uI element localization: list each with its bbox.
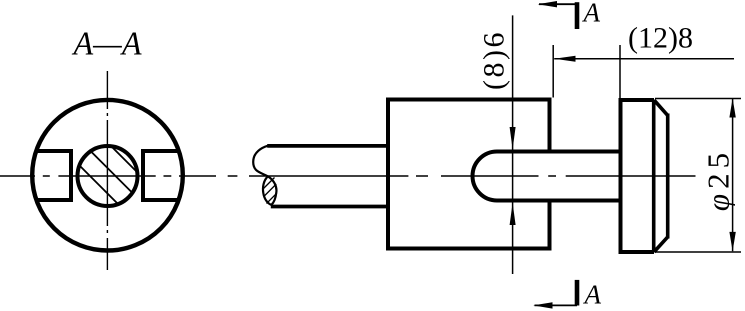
dimension (8)6: upper arrowhead (down) [510, 127, 516, 149]
dimension phi25: extension line top [655, 98, 741, 100]
cutting plane mark bottom: thick stroke [575, 280, 580, 306]
vertical centerline (section view) [106, 71, 108, 270]
shaft section circle [78, 146, 138, 206]
break lens left arc [263, 176, 271, 205]
dimension (8)6: dimension line [512, 15, 514, 274]
flange chamfer line [652, 100, 656, 252]
block right edge lower segment [548, 201, 552, 251]
svg-text:A: A [583, 280, 602, 310]
flange top edge [619, 98, 655, 102]
cutting plane mark top: thick stroke [575, 2, 580, 29]
dimension (8)6: lower arrowhead (up) [510, 203, 516, 225]
break lens hatch [264, 178, 277, 204]
svg-text:(8)6: (8)6 [478, 30, 511, 90]
slot rounded end [473, 152, 497, 201]
cutting plane mark top: arrow line [539, 3, 577, 5]
block outline [386, 98, 552, 251]
shaft section circle fill [78, 146, 138, 206]
dimension phi25: top arrowhead (up) [729, 98, 735, 117]
slot rectangle right [143, 149, 179, 202]
shaft top line [267, 144, 388, 148]
flange chamfer bottom slant [654, 237, 668, 252]
dimension phi25: dimension line [732, 98, 734, 251]
cutting plane mark top: arrowhead [538, 1, 557, 7]
flange chamfer top slant [654, 100, 668, 115]
outer circle (body section) [32, 100, 183, 251]
slot rectangle left [36, 149, 71, 202]
cutting plane mark bottom: arrowhead [533, 302, 552, 308]
flange right edge [666, 114, 670, 239]
dimension phi25: extension line bottom [655, 251, 741, 253]
shaft section hatch [76, 140, 145, 208]
dimension (12)8: extension line left [552, 45, 554, 98]
svg-text:φ25: φ25 [701, 148, 736, 211]
svg-text:(12)8: (12)8 [628, 21, 693, 54]
flange left edge [619, 98, 623, 254]
svg-text:A: A [582, 0, 601, 27]
dimension (12)8: arrowhead (left) [554, 56, 575, 62]
horizontal centerline (both views) [0, 175, 696, 177]
block right edge upper segment [548, 98, 552, 152]
slot bottom line [497, 199, 621, 203]
slot top line [497, 150, 621, 154]
shaft bottom line [271, 205, 388, 209]
dimension (12)8: extension line right [619, 45, 621, 98]
dimension (12)8: dimension line [554, 58, 734, 60]
flange bottom edge [619, 250, 655, 254]
break line (S-curve) [253, 146, 276, 205]
dimension phi25: bottom arrowhead (down) [729, 232, 735, 251]
svg-text:A—A: A—A [72, 26, 142, 63]
cutting plane mark bottom: arrow line [535, 304, 578, 306]
